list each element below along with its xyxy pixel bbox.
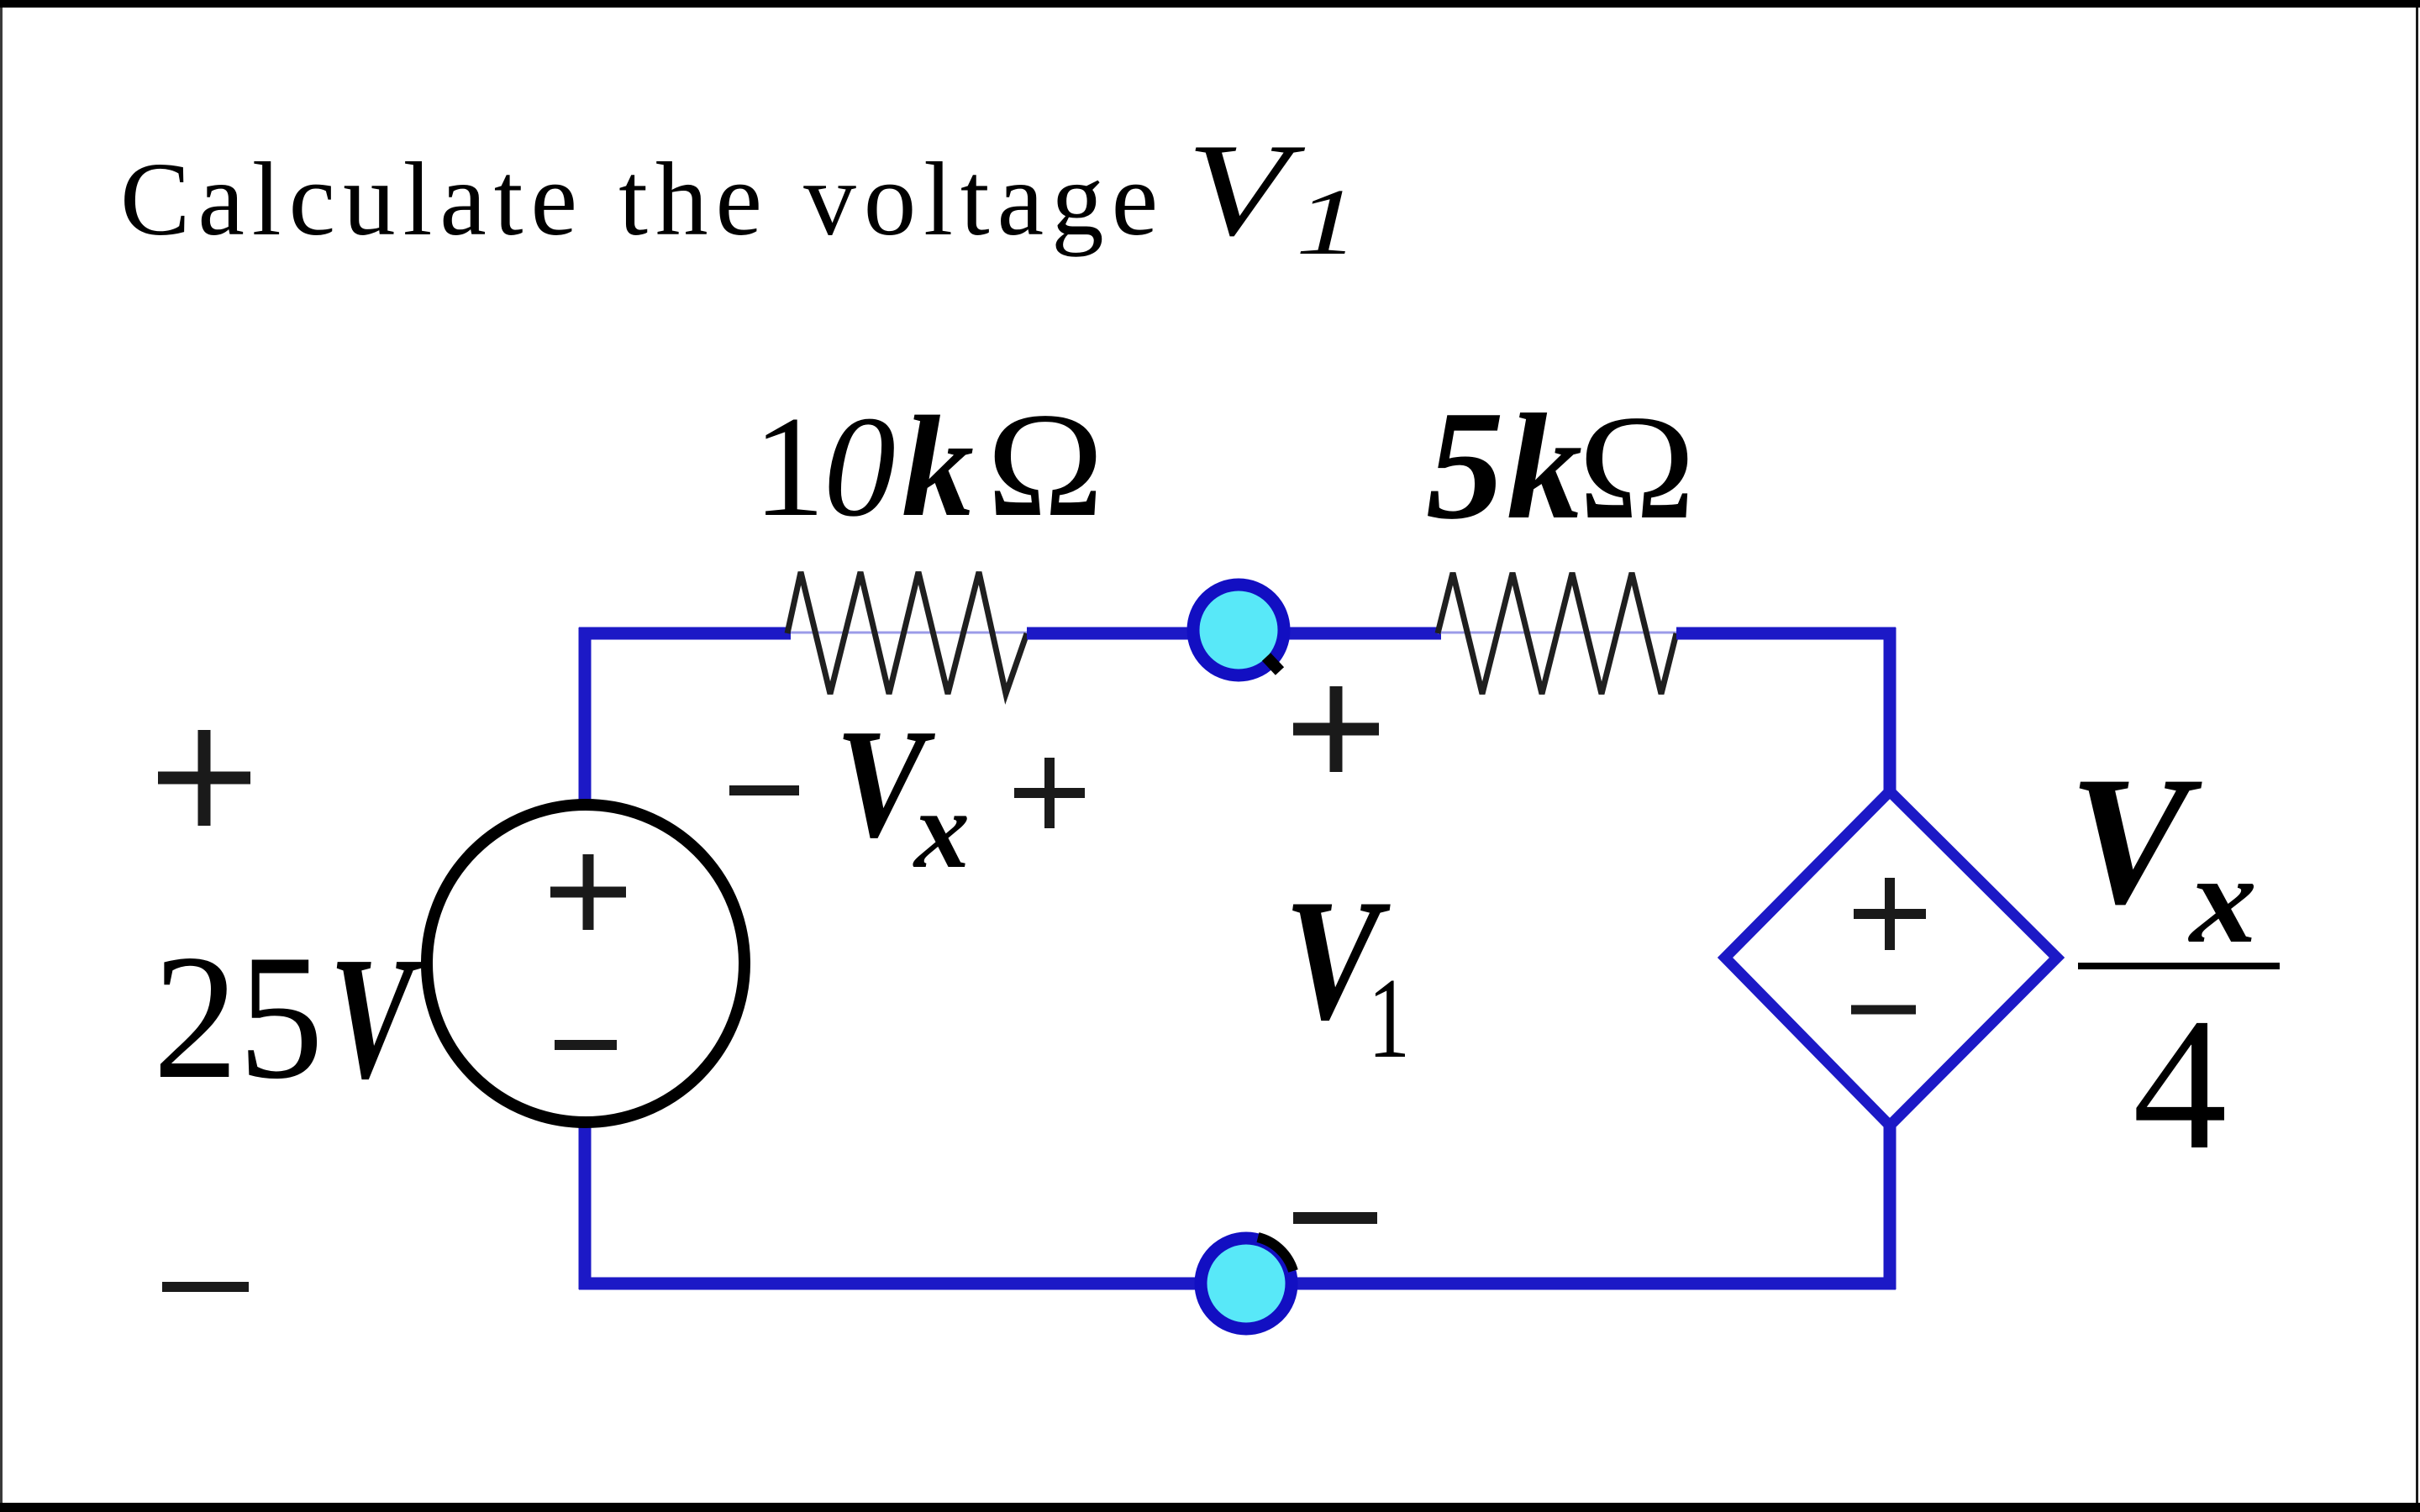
wire left vertical upper	[579, 627, 592, 806]
wire faint under resistor R1	[791, 632, 1027, 634]
dependent source minus sign	[1851, 1005, 1916, 1015]
node B (bottom)	[1201, 1238, 1292, 1329]
voltage source V S circle	[427, 805, 744, 1122]
svg-text:V: V	[2069, 739, 2202, 942]
wire faint under resistor R2	[1438, 632, 1676, 634]
label V1 plus	[1293, 686, 1379, 772]
node A (top)	[1193, 585, 1284, 675]
resistor R2 zigzag	[1438, 573, 1676, 694]
label Vx of -Vx+	[835, 697, 970, 891]
label -Vx+ minus	[729, 785, 799, 795]
wire top-left horizontal	[579, 627, 791, 640]
svg-text:1: 1	[1296, 170, 1359, 275]
label -Vx+ plus	[1014, 758, 1085, 828]
svg-text:k: k	[1507, 383, 1582, 550]
resistor R2 value 5kΩ	[1426, 379, 1696, 552]
dependent source value Vx/4	[2069, 739, 2280, 1189]
wire bottom horizontal	[579, 1278, 1896, 1290]
source minus sign	[555, 1040, 617, 1050]
label V1	[1284, 864, 1410, 1082]
resistor R1 value 10kΩ	[753, 381, 1104, 548]
dependent source plus sign	[1854, 878, 1926, 950]
wire top-right horizontal	[1676, 627, 1896, 640]
svg-text:V: V	[329, 921, 422, 1116]
svg-text:V: V	[1186, 117, 1306, 264]
svg-text:x: x	[2188, 830, 2257, 969]
outer minus sign (left)	[162, 1282, 249, 1292]
source plus sign	[550, 854, 626, 930]
node B black arc	[1258, 1237, 1293, 1271]
svg-text:Calculate the voltage: Calculate the voltage	[120, 142, 1165, 258]
svg-text:1: 1	[1368, 954, 1410, 1082]
title text	[120, 117, 1359, 275]
svg-text:k: k	[902, 387, 974, 547]
node A black tick	[1266, 657, 1280, 671]
svg-text:Ω: Ω	[986, 381, 1104, 548]
svg-text:1: 1	[753, 387, 825, 547]
svg-text:x: x	[913, 768, 970, 891]
resistor R1 zigzag	[787, 572, 1027, 694]
wire left vertical lower	[579, 1117, 592, 1289]
dependent source U1 diamond	[1725, 791, 2057, 1126]
wire top-middle horizontal	[1027, 627, 1441, 640]
source value 25V	[153, 918, 422, 1116]
svg-text:25: 25	[153, 918, 324, 1116]
wire right vertical upper	[1884, 627, 1897, 796]
outer plus sign (left)	[158, 730, 250, 826]
svg-text:5: 5	[1426, 379, 1504, 552]
svg-text:Ω: Ω	[1578, 384, 1696, 550]
label V1 minus	[1293, 1212, 1377, 1224]
wire right vertical lower	[1884, 1121, 1897, 1289]
svg-text:4: 4	[2133, 979, 2228, 1189]
svg-text:0: 0	[823, 387, 896, 547]
